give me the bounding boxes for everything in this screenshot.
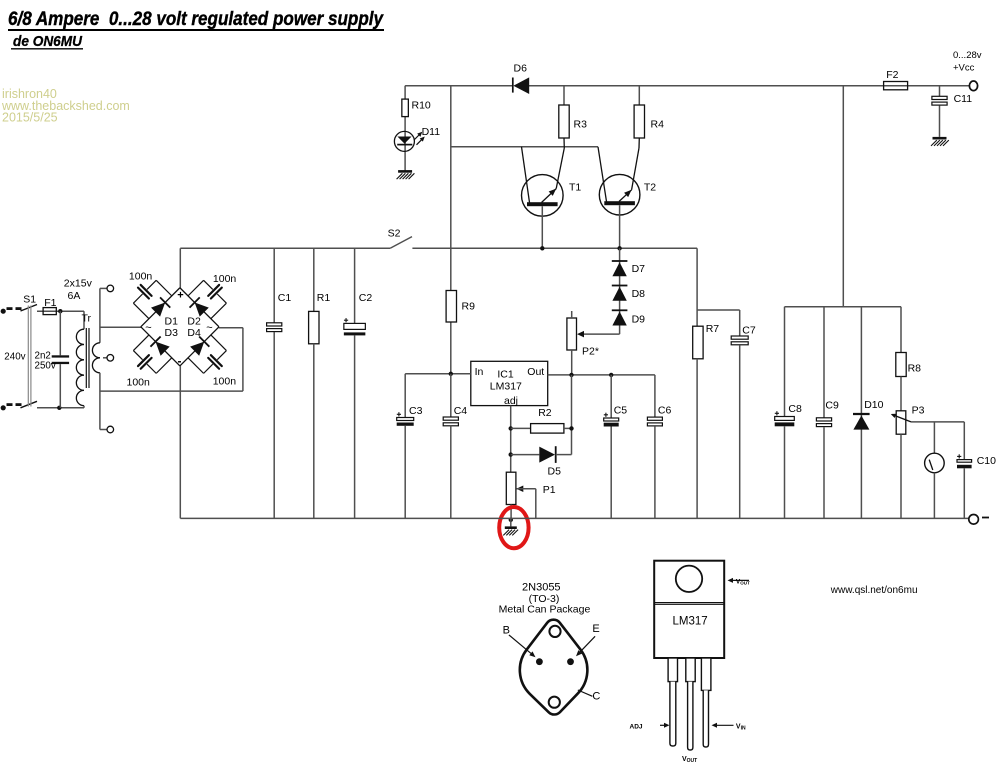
svg-text:F2: F2 [886, 69, 898, 81]
svg-text:250v: 250v [35, 360, 56, 371]
svg-text:VOUT: VOUT [682, 756, 697, 764]
svg-text:VOUT: VOUT [736, 579, 750, 586]
svg-text:E: E [592, 623, 599, 635]
svg-text:2N3055: 2N3055 [522, 582, 561, 594]
svg-text:ADJ: ADJ [630, 723, 643, 730]
svg-text:LM317: LM317 [673, 616, 708, 628]
svg-text:P2*: P2* [582, 346, 599, 358]
svg-text:Out: Out [527, 366, 544, 378]
svg-text:2015/5/25: 2015/5/25 [2, 111, 58, 125]
svg-text:R4: R4 [651, 119, 665, 131]
svg-text:D6: D6 [514, 63, 528, 75]
svg-text:C3: C3 [409, 405, 423, 417]
svg-text:R3: R3 [574, 119, 588, 131]
svg-text:T2: T2 [644, 182, 656, 194]
svg-text:2x15v: 2x15v [64, 277, 93, 289]
svg-text:0...28v: 0...28v [953, 50, 982, 61]
svg-text:-: - [178, 354, 182, 368]
svg-text:+: + [177, 289, 183, 301]
svg-text:C2: C2 [359, 292, 373, 304]
svg-text:P1: P1 [543, 484, 556, 496]
svg-text:www.qsl.net/on6mu: www.qsl.net/on6mu [830, 585, 918, 596]
svg-text:F1: F1 [44, 297, 56, 309]
svg-text:C: C [592, 691, 600, 703]
svg-text:C6: C6 [658, 404, 672, 416]
svg-text:R7: R7 [706, 323, 720, 335]
svg-text:D2: D2 [187, 315, 201, 327]
svg-text:D10: D10 [864, 399, 883, 411]
svg-text:C9: C9 [825, 400, 839, 412]
svg-text:de ON6MU: de ON6MU [13, 33, 83, 50]
svg-text:VIN: VIN [736, 723, 746, 731]
svg-text:T1: T1 [569, 182, 581, 194]
svg-text:D5: D5 [548, 465, 562, 477]
svg-text:6/8 Ampere 0...28 volt regula: 6/8 Ampere 0...28 volt regulated power s… [8, 8, 384, 30]
svg-text:LM317: LM317 [490, 380, 522, 392]
svg-text:Metal Can Package: Metal Can Package [499, 604, 591, 616]
svg-text:240v: 240v [4, 352, 25, 363]
svg-text:D4: D4 [187, 327, 201, 339]
svg-text:C1: C1 [278, 292, 292, 304]
svg-text:P3: P3 [912, 404, 925, 416]
svg-text:D8: D8 [632, 288, 646, 300]
svg-text:R1: R1 [317, 292, 331, 304]
svg-text:D1: D1 [165, 315, 179, 327]
svg-text:6A: 6A [68, 290, 81, 302]
svg-text:100n: 100n [213, 376, 237, 388]
svg-text:R10: R10 [412, 100, 431, 112]
svg-text:IC1: IC1 [497, 369, 514, 381]
svg-text:R8: R8 [908, 362, 922, 374]
svg-text:100n: 100n [127, 376, 151, 388]
svg-text:+Vcc: +Vcc [953, 63, 975, 74]
svg-text:adj: adj [504, 395, 518, 407]
svg-text:100n: 100n [129, 270, 153, 282]
svg-text:Tr: Tr [82, 313, 92, 325]
svg-text:C4: C4 [454, 405, 468, 417]
svg-text:C11: C11 [954, 93, 973, 105]
svg-text:C8: C8 [788, 403, 802, 415]
svg-text:D7: D7 [632, 263, 646, 275]
svg-text:R9: R9 [462, 301, 476, 313]
svg-text:S1: S1 [23, 294, 36, 306]
svg-text:S2: S2 [388, 228, 401, 240]
svg-text:C10: C10 [977, 455, 996, 467]
svg-text:D3: D3 [165, 327, 179, 339]
svg-text:~: ~ [145, 322, 151, 334]
svg-text:D9: D9 [632, 314, 646, 326]
svg-text:R2: R2 [538, 407, 552, 419]
svg-text:C7: C7 [742, 325, 756, 337]
svg-text:In: In [475, 366, 484, 378]
svg-text:D11: D11 [422, 126, 441, 138]
svg-text:100n: 100n [213, 273, 237, 285]
svg-text:~: ~ [206, 322, 212, 334]
svg-text:C5: C5 [614, 404, 628, 416]
svg-text:B: B [503, 625, 510, 637]
